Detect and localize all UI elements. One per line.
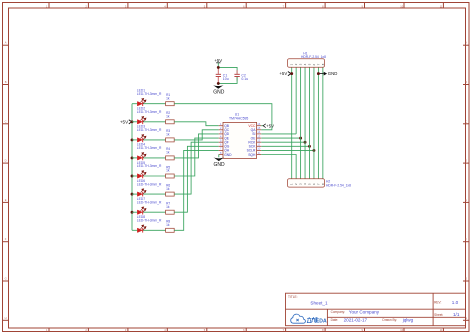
svg-text:1k: 1k [166, 151, 170, 155]
svg-text:E: E [465, 198, 467, 202]
wire +5V to C1 [217, 63, 219, 68]
wire header line 8 [322, 67, 324, 179]
svg-text:LED-TH-3mm_R: LED-TH-3mm_R [137, 219, 162, 223]
wire R6 to QF [174, 142, 219, 194]
ground symbol below C1 [213, 85, 224, 89]
wire SI to header line 2 [261, 133, 296, 135]
resistor R4 1k [166, 147, 175, 160]
wire header line 1 [291, 67, 293, 179]
svg-text:LED-TH-3mm_R: LED-TH-3mm_R [137, 146, 162, 150]
wire VCC to +5V flag [261, 125, 263, 127]
svg-text:HDR-F-2.54_1x8: HDR-F-2.54_1x8 [326, 183, 351, 187]
wire OE to header line 3 [261, 137, 300, 139]
wire RCK to header line 4 [261, 141, 305, 143]
wire LED1 to R1 [143, 103, 165, 105]
wire header line 2 upper [295, 67, 297, 134]
resistor R5 1k [166, 165, 175, 178]
wire R7 to QG [174, 146, 219, 212]
junction OE on header line 3 [299, 137, 302, 140]
+5V net flag (VCC) [263, 124, 266, 128]
svg-text:Your Company: Your Company [349, 310, 380, 315]
LED8 [132, 215, 162, 233]
svg-text:LED-TH-3mm_R: LED-TH-3mm_R [137, 200, 162, 204]
LED6 [132, 179, 162, 197]
resistor R3 1k [166, 129, 175, 142]
svg-text:Date:: Date: [331, 318, 339, 322]
svg-text:+5V: +5V [266, 123, 274, 128]
resistor R8 1k [166, 220, 175, 233]
wire R4 to QD [174, 134, 219, 158]
svg-text:LED-TH-3mm_R: LED-TH-3mm_R [137, 128, 162, 132]
LED3 [132, 125, 162, 143]
svg-text:1k: 1k [166, 133, 170, 137]
svg-text:GND: GND [224, 153, 232, 157]
svg-text:C: C [465, 119, 467, 123]
resistor R1 1k [166, 93, 175, 106]
junction on bus row 3 [131, 138, 134, 141]
wire LED4 to R4 [143, 157, 165, 159]
svg-text:D: D [5, 159, 7, 163]
svg-text:GND: GND [213, 90, 225, 96]
svg-text:2021-02-17: 2021-02-17 [344, 318, 368, 323]
wire LED2 to R2 [143, 121, 165, 123]
svg-text:+5V: +5V [120, 120, 129, 125]
LED5 [132, 161, 162, 179]
wire SCLR to header line 6 [261, 149, 314, 151]
junction on bus row 5 [131, 175, 134, 178]
capacitor C2 pin segments [236, 70, 238, 80]
wire header line 5 [309, 67, 311, 179]
svg-text:Sheet:: Sheet: [434, 313, 443, 317]
svg-text:LED-TH-3mm_R: LED-TH-3mm_R [137, 164, 162, 168]
svg-text:REV:: REV: [434, 301, 441, 305]
wire R1 to QA (over the top) [174, 104, 272, 130]
svg-text:1k: 1k [166, 169, 170, 173]
wire LED3 to R3 [143, 139, 165, 141]
wire LED7 to R7 [143, 211, 165, 213]
wire C2 branch bottom [218, 77, 237, 84]
LED2 [132, 107, 162, 125]
LED7 [132, 197, 162, 215]
wire SQH to header line 2 lower [261, 155, 296, 179]
svg-text:1k: 1k [166, 115, 170, 119]
svg-text:+5V: +5V [279, 71, 287, 76]
svg-text:GND: GND [213, 162, 225, 168]
capacitor C2 [234, 74, 239, 76]
svg-text:1k: 1k [166, 223, 170, 227]
vertical +5V bus wire [131, 104, 133, 231]
svg-text:+5V: +5V [214, 58, 222, 63]
resistor R2 1k [166, 111, 175, 124]
svg-text:10u: 10u [223, 77, 229, 81]
resistor R7 1k [166, 202, 175, 215]
svg-text:1k: 1k [166, 187, 170, 191]
title block [286, 293, 466, 326]
svg-text:Drawn By:: Drawn By: [382, 318, 397, 322]
wire header line 4 [304, 67, 306, 179]
svg-text:H: H [5, 316, 7, 320]
svg-text:EDA: EDA [316, 319, 327, 325]
svg-text:C: C [5, 119, 7, 123]
LED1 [132, 89, 162, 107]
svg-text:TM74HC595: TM74HC595 [229, 117, 248, 121]
wire SCK to header line 5 [261, 145, 309, 147]
svg-text:D: D [465, 159, 467, 163]
svg-text:GND: GND [328, 71, 338, 76]
junction +5V on line 1 [290, 72, 293, 75]
wire header line 7 [317, 67, 319, 179]
+5V net flag (top, above C1) [214, 58, 222, 63]
svg-text:B: B [5, 80, 7, 84]
wire R2 to QB [174, 122, 219, 126]
wire R8 to QH [174, 150, 219, 230]
wire C2 branch top [218, 67, 237, 74]
svg-text:LED-TH-3mm_R: LED-TH-3mm_R [137, 110, 162, 114]
junction GND on line 7 [317, 72, 320, 75]
svg-text:SQH: SQH [248, 153, 256, 157]
junction SCK on header line 5 [308, 145, 311, 148]
junction on bus row 4 [131, 156, 134, 159]
wire LED6 to R6 [143, 193, 165, 195]
svg-text:G: G [465, 277, 467, 281]
svg-text:LED-TH-3mm_R: LED-TH-3mm_R [137, 92, 162, 96]
svg-text:E: E [5, 198, 7, 202]
svg-text:LED-TH-3mm_R: LED-TH-3mm_R [137, 182, 162, 186]
EasyEDA logo [291, 314, 306, 323]
svg-text:1/1: 1/1 [453, 312, 460, 317]
junction on bus row 2 [131, 120, 134, 123]
junction on bus row 6 [131, 193, 134, 196]
svg-text:B: B [465, 80, 467, 84]
junction dot bottom of C1 [217, 82, 220, 85]
wire C1 to GND [217, 83, 219, 85]
svg-text:1k: 1k [166, 96, 170, 100]
junction RCK on header line 4 [304, 141, 307, 144]
junction on bus row 7 [131, 211, 134, 214]
svg-text:0.1u: 0.1u [241, 77, 248, 81]
junction SCLR on header line 6 [313, 149, 316, 152]
svg-text:Sheet_1: Sheet_1 [310, 301, 328, 306]
GND net flag (H1) [318, 73, 323, 75]
wire header line 3 [300, 67, 302, 179]
wire R3 to QC [174, 130, 219, 140]
wire header line 6 [313, 67, 315, 179]
svg-text:jqlwg: jqlwg [402, 318, 414, 323]
connector H2 HDR-F-2.54_1x8 [287, 179, 351, 188]
wire LED5 to R5 [143, 175, 165, 177]
resistor R6 1k [166, 183, 175, 196]
wire R5 to QE [174, 138, 219, 176]
svg-text:Company:: Company: [331, 310, 346, 314]
svg-text:G: G [5, 277, 7, 281]
svg-text:TITLE:: TITLE: [288, 295, 298, 299]
wire GND pin hook [218, 155, 220, 158]
svg-text:A: A [5, 41, 7, 45]
svg-text:1k: 1k [166, 205, 170, 209]
junction dot top of C1 [217, 66, 220, 69]
IC U1 TM74HC595 [219, 112, 262, 158]
wire LED8 to R8 [143, 229, 165, 231]
svg-text:A: A [465, 41, 467, 45]
LED4 [132, 143, 162, 161]
svg-text:1.0: 1.0 [452, 300, 459, 305]
connector H1 HDR-F-2.54_1x8 [287, 51, 326, 67]
ground symbol below U1 [213, 157, 224, 161]
capacitor C1 [217, 67, 219, 83]
